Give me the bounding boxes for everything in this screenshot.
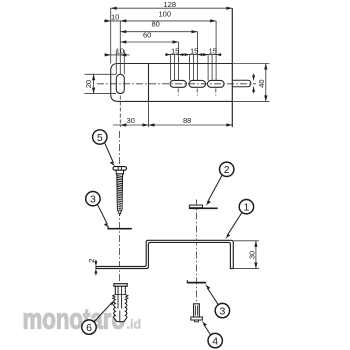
- ext left slot edges: [115, 50, 117, 74]
- svg-text:2: 2: [224, 164, 230, 176]
- right assembly axis: [196, 200, 198, 323]
- dim line 60: [120, 41, 178, 43]
- washer (item 3 lower): [187, 282, 206, 284]
- left slot: [116, 74, 124, 93]
- balloon 3 upper: [86, 192, 110, 229]
- bolt (item 4): [191, 304, 203, 322]
- ext slot3 centre: [215, 21, 217, 81]
- svg-text:15: 15: [190, 46, 198, 55]
- svg-text:3: 3: [219, 305, 225, 317]
- svg-text:15: 15: [209, 46, 217, 55]
- svg-text:80: 80: [152, 20, 160, 29]
- slot S1: [170, 80, 186, 87]
- 128 arrows: [111, 7, 117, 10]
- 40 dim line right: [265, 64, 267, 102]
- bottom dim line 30/88: [113, 124, 232, 126]
- ext slot centre below (dashed): [119, 96, 121, 128]
- slot S3: [208, 80, 225, 87]
- balloon 5: [93, 130, 116, 167]
- screw threads: [117, 176, 123, 211]
- wall plug (item 6): [113, 284, 128, 322]
- 40 dim arrows: [264, 64, 267, 70]
- ext left edge: [110, 8, 112, 63]
- 40 ext lines: [233, 63, 270, 65]
- svg-text:30: 30: [248, 251, 257, 259]
- tab dim arrows (outside): [252, 75, 255, 80]
- 88 dim arrows bottom: [149, 123, 155, 126]
- 80 arrows: [120, 30, 126, 33]
- svg-text:monotaro: monotaro: [23, 304, 126, 336]
- balloon 1: [225, 200, 254, 240]
- 30 dim right side: [234, 241, 259, 269]
- svg-text:128: 128: [164, 0, 177, 9]
- 15 arrows (outside pairs): [166, 53, 171, 56]
- 30 dim arrows bottom: [120, 123, 126, 126]
- bracket Z profile (item 1): [96, 240, 233, 268]
- washer (item 3 upper): [108, 228, 132, 230]
- 100 arrow right: [210, 19, 216, 22]
- dim line 10/100: [104, 20, 216, 22]
- 60 arrows: [120, 40, 126, 43]
- bend line in plate: [148, 64, 150, 102]
- plate outline top view: [111, 64, 233, 102]
- svg-text:4: 4: [212, 335, 218, 347]
- plug inner hole lines: [117, 287, 119, 309]
- left assembly axis: [119, 131, 121, 284]
- svg-text:15: 15: [171, 46, 179, 55]
- svg-text:60: 60: [143, 31, 151, 40]
- balloon 3 lower: [205, 284, 230, 318]
- svg-text:100: 100: [159, 10, 172, 19]
- screw head slot: [117, 167, 119, 170]
- 10 arrows (outside): [105, 19, 111, 22]
- ext left slot centre: [119, 21, 121, 74]
- svg-text:10: 10: [111, 13, 119, 22]
- slot S2: [189, 80, 206, 87]
- arrowheads for dimensions: [92, 7, 267, 127]
- screw (item 5): [113, 167, 127, 215]
- svg-text:1: 1: [243, 202, 249, 214]
- dim line 128: [111, 7, 233, 9]
- balloon 6: [82, 300, 115, 335]
- bend line ext below: [148, 101, 150, 127]
- dim line 80: [120, 31, 197, 33]
- small tab dim line: [253, 74, 255, 81]
- 20 dim ext lines: [85, 73, 117, 75]
- svg-text:10: 10: [116, 47, 124, 56]
- 10 small arrows (outside): [105, 53, 111, 56]
- right tab (bent leg seen from top): [232, 80, 251, 86]
- watermark monotaro.id: [23, 304, 142, 336]
- ext slot1 centre: [178, 42, 180, 80]
- extension + dimension lines (thin): [85, 8, 270, 127]
- svg-text:88: 88: [183, 116, 191, 125]
- svg-text:5: 5: [97, 132, 103, 144]
- balloon 2: [206, 162, 234, 206]
- 2 dim (sheet thickness): [95, 260, 97, 276]
- svg-text:2: 2: [87, 259, 96, 263]
- svg-text:.id: .id: [127, 318, 142, 332]
- dim line 10 small: [105, 54, 130, 56]
- balloon 4: [202, 321, 223, 348]
- dimension texts top view: [84, 0, 266, 125]
- nut (item 2): [189, 207, 218, 209]
- dim lines 15 x3: [165, 54, 184, 56]
- horizontal centre axis of top view: [97, 83, 256, 85]
- ext slot2 centre: [197, 32, 199, 81]
- ext right edge (long, also 88 dim): [231, 8, 233, 127]
- centre dash below slots: [177, 89, 179, 96]
- svg-text:30: 30: [127, 116, 135, 125]
- 20 dim line: [93, 74, 95, 93]
- svg-text:20: 20: [84, 80, 93, 88]
- svg-text:40: 40: [257, 79, 266, 87]
- svg-text:3: 3: [90, 194, 96, 206]
- ext pairs for 15 dims: [170, 55, 172, 81]
- 20 dim arrows: [92, 74, 95, 80]
- svg-text:6: 6: [86, 322, 92, 334]
